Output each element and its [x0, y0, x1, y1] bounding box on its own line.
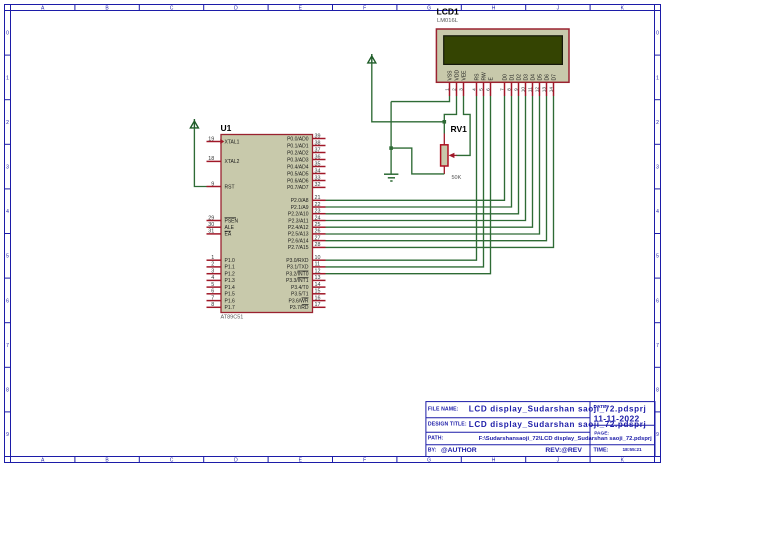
svg-text:P0.0/AD0: P0.0/AD0	[287, 136, 309, 142]
svg-text:EA: EA	[225, 232, 232, 238]
svg-text:12: 12	[315, 269, 321, 275]
svg-text:P2.0/A8: P2.0/A8	[291, 198, 309, 204]
junction ground node	[389, 146, 393, 150]
svg-text:LM016L: LM016L	[437, 18, 459, 24]
svg-text:C: C	[170, 458, 174, 464]
svg-text:24: 24	[315, 215, 321, 221]
svg-text:13: 13	[542, 87, 548, 93]
wire U1 P2.5 to LCD D5	[326, 96, 540, 234]
svg-text:25: 25	[315, 222, 321, 228]
svg-text:1: 1	[656, 75, 659, 81]
svg-text:14: 14	[549, 87, 555, 93]
svg-text:P1.6: P1.6	[225, 298, 236, 304]
chip U1 AT89C51 body	[221, 135, 313, 313]
svg-text:5: 5	[211, 282, 214, 288]
svg-text:11: 11	[315, 262, 321, 268]
svg-text:2: 2	[211, 262, 214, 268]
svg-text:7: 7	[211, 295, 214, 301]
svg-text:27: 27	[315, 235, 321, 241]
wire ground net vertical	[390, 102, 392, 175]
svg-text:P2.5/A13: P2.5/A13	[288, 232, 309, 238]
svg-text:DESIGN TITLE:: DESIGN TITLE:	[428, 421, 467, 427]
svg-text:23: 23	[315, 209, 321, 215]
svg-text:P2.1/A9: P2.1/A9	[291, 205, 309, 211]
LCD screen	[444, 36, 563, 65]
svg-text:TIME:: TIME:	[594, 447, 609, 453]
svg-text:9: 9	[514, 88, 520, 91]
svg-text:10: 10	[315, 255, 321, 261]
U1 pin numbers	[208, 133, 320, 308]
potentiometer RV1 body	[441, 145, 448, 166]
svg-text:PAGE:: PAGE:	[594, 430, 609, 436]
svg-text:VSS: VSS	[448, 70, 454, 81]
sheet border frame	[5, 5, 661, 463]
svg-text:G: G	[427, 5, 431, 11]
svg-text:8: 8	[507, 88, 513, 91]
svg-text:BY:: BY:	[428, 447, 437, 453]
U1 left pin stubs	[207, 142, 222, 308]
svg-text:U1: U1	[221, 123, 232, 133]
wire LCD VSS to ground net	[391, 96, 449, 102]
wire U1 P2.2 to LCD D2	[326, 96, 519, 214]
wire U1 P3.1 to LCD RW	[326, 96, 484, 267]
svg-text:3: 3	[459, 88, 465, 91]
svg-text:H: H	[492, 5, 496, 11]
wire ground branch to RV1 bottom	[391, 148, 444, 174]
svg-text:P0.5/AD5: P0.5/AD5	[287, 171, 309, 177]
svg-text:REV:@REV: REV:@REV	[545, 447, 582, 454]
svg-text:RV1: RV1	[451, 124, 468, 134]
svg-text:39: 39	[315, 133, 321, 139]
svg-text:P3.7/RD: P3.7/RD	[290, 305, 309, 311]
RV1 top pin	[443, 134, 445, 145]
wire U1 P3.0 to LCD RS	[326, 96, 477, 260]
svg-text:P2.7/A15: P2.7/A15	[288, 245, 309, 251]
svg-text:7: 7	[500, 88, 506, 91]
svg-text:D2: D2	[517, 74, 523, 81]
svg-text:5: 5	[6, 254, 9, 260]
svg-text:P1.4: P1.4	[225, 285, 236, 291]
svg-text:32: 32	[315, 182, 321, 188]
svg-text:11-11-2022: 11-11-2022	[594, 414, 640, 424]
wire U1 P2.6 to LCD D6	[326, 96, 547, 241]
svg-text:P3.1/TXD: P3.1/TXD	[287, 265, 309, 271]
title block	[426, 402, 655, 457]
svg-text:G: G	[427, 458, 431, 464]
svg-text:6: 6	[486, 88, 492, 91]
svg-text:9: 9	[211, 181, 214, 187]
U1 pin names	[225, 136, 309, 311]
wire U1 P2.7 to LCD D7	[326, 96, 554, 247]
title block text	[428, 404, 652, 454]
svg-text:P3.3/INT1: P3.3/INT1	[286, 278, 309, 284]
svg-text:10: 10	[521, 87, 527, 93]
svg-text:PSEN: PSEN	[225, 218, 239, 224]
svg-text:P2.6/A14: P2.6/A14	[288, 238, 309, 244]
svg-text:4: 4	[211, 275, 214, 281]
RV1 bottom pin	[443, 166, 445, 174]
svg-text:13: 13	[315, 275, 321, 281]
svg-text:LCD1: LCD1	[437, 7, 459, 17]
svg-text:4: 4	[6, 209, 9, 215]
wire power to U1 RST	[194, 128, 206, 187]
svg-text:RS: RS	[475, 73, 481, 81]
wire U1 P3.2 to LCD E	[326, 96, 491, 274]
svg-text:AT89C51: AT89C51	[221, 315, 244, 321]
svg-text:5: 5	[656, 254, 659, 260]
LCD pin names	[448, 70, 558, 81]
svg-text:P1.5: P1.5	[225, 292, 236, 298]
U1 pin name overlines	[225, 218, 309, 305]
svg-text:FILE NAME:: FILE NAME:	[428, 407, 459, 413]
svg-text:33: 33	[315, 175, 321, 181]
svg-text:19: 19	[208, 136, 214, 142]
svg-text:RW: RW	[482, 72, 488, 81]
svg-text:D5: D5	[538, 74, 544, 81]
svg-text:P1.0: P1.0	[225, 258, 236, 264]
wire U1 P2.4 to LCD D4	[326, 96, 533, 227]
wire LCD VEE to RV1 wiper	[457, 96, 471, 155]
svg-text:15: 15	[315, 289, 321, 295]
junction RV1 top node	[443, 120, 447, 124]
svg-text:0: 0	[6, 31, 9, 37]
svg-text:@AUTHOR: @AUTHOR	[441, 447, 477, 454]
svg-text:14: 14	[315, 282, 321, 288]
svg-text:28: 28	[315, 242, 321, 248]
svg-text:8: 8	[6, 388, 9, 394]
svg-text:36: 36	[315, 154, 321, 160]
svg-text:VEE: VEE	[462, 70, 468, 81]
svg-text:16: 16	[315, 295, 321, 301]
svg-text:P2.3/A11: P2.3/A11	[288, 218, 308, 224]
svg-text:50K: 50K	[452, 175, 462, 181]
svg-text:0: 0	[656, 31, 659, 37]
svg-text:P0.1/AD1: P0.1/AD1	[287, 143, 309, 149]
svg-text:F:\Sudarshansaoji_72\LCD displ: F:\Sudarshansaoji_72\LCD display_Sudarsh…	[479, 436, 653, 442]
svg-text:7: 7	[6, 343, 9, 349]
svg-text:D4: D4	[531, 74, 537, 81]
svg-text:P3.5/T1: P3.5/T1	[291, 292, 309, 298]
svg-text:29: 29	[208, 215, 214, 221]
svg-text:P0.2/AD2: P0.2/AD2	[287, 150, 309, 156]
svg-text:RST: RST	[225, 184, 235, 190]
svg-text:2: 2	[656, 120, 659, 126]
wire U1 P2.0 to LCD D0	[326, 96, 505, 200]
ground symbol	[384, 174, 398, 181]
power arrow symbol near U1	[190, 119, 198, 129]
svg-text:6: 6	[6, 298, 9, 304]
svg-text:3: 3	[211, 269, 214, 275]
svg-text:P3.2/INT0: P3.2/INT0	[286, 272, 309, 278]
svg-text:38: 38	[315, 140, 321, 146]
svg-text:D0: D0	[503, 74, 509, 81]
svg-text:D3: D3	[524, 74, 530, 81]
svg-text:8: 8	[656, 388, 659, 394]
power arrow symbol near RV1	[368, 54, 376, 64]
svg-text:18:55:21: 18:55:21	[623, 447, 643, 453]
svg-text:P0.6/AD6: P0.6/AD6	[287, 178, 309, 184]
RV1 wiper arrow	[449, 153, 457, 158]
svg-text:P0.4/AD4: P0.4/AD4	[287, 164, 309, 170]
svg-text:P3.4/T0: P3.4/T0	[291, 285, 309, 291]
svg-text:17: 17	[315, 302, 321, 308]
svg-text:P0.7/AD7: P0.7/AD7	[287, 185, 309, 191]
svg-text:37: 37	[315, 147, 321, 153]
wire power rail to RV1 top	[372, 63, 445, 122]
svg-text:3: 3	[6, 165, 9, 171]
svg-text:9: 9	[6, 432, 9, 438]
svg-text:P1.7: P1.7	[225, 305, 236, 311]
svg-text:D6: D6	[545, 74, 551, 81]
svg-text:18: 18	[208, 156, 214, 162]
svg-text:30: 30	[208, 222, 214, 228]
U1 XTAL1 clock arrow	[220, 139, 224, 144]
svg-text:1: 1	[211, 255, 214, 261]
svg-text:P0.3/AD3: P0.3/AD3	[287, 157, 309, 163]
svg-text:3: 3	[656, 165, 659, 171]
svg-text:4: 4	[656, 209, 659, 215]
svg-text:XTAL1: XTAL1	[225, 139, 240, 145]
svg-text:2: 2	[452, 88, 458, 91]
svg-text:4: 4	[472, 88, 478, 91]
svg-text:6: 6	[211, 289, 214, 295]
svg-text:LCD display_Sudarshan saoji_72: LCD display_Sudarshan saoji_72.pdsprj	[469, 404, 647, 413]
svg-text:D: D	[234, 458, 238, 464]
svg-text:8: 8	[211, 302, 214, 308]
svg-text:P3.0/RXD: P3.0/RXD	[286, 258, 309, 264]
svg-text:PATH:: PATH:	[428, 436, 444, 442]
svg-text:21: 21	[315, 195, 321, 201]
svg-text:H: H	[492, 458, 496, 464]
svg-text:P1.3: P1.3	[225, 278, 236, 284]
LCD LM016L body	[436, 29, 569, 82]
wire U1 P2.1 to LCD D1	[326, 96, 512, 207]
svg-text:P2.2/A10: P2.2/A10	[288, 212, 309, 218]
svg-text:ALE: ALE	[225, 225, 235, 231]
wire U1 P2.3 to LCD D3	[326, 96, 526, 221]
svg-text:XTAL2: XTAL2	[225, 159, 240, 165]
frame grid labels	[6, 5, 659, 463]
svg-text:F: F	[363, 5, 366, 11]
svg-text:VDD: VDD	[455, 70, 461, 81]
svg-text:35: 35	[315, 161, 321, 167]
svg-text:P1.1: P1.1	[225, 265, 236, 271]
svg-text:9: 9	[656, 432, 659, 438]
svg-text:P1.2: P1.2	[225, 272, 236, 278]
svg-text:31: 31	[208, 229, 214, 235]
svg-text:P3.6/WR: P3.6/WR	[288, 298, 308, 304]
svg-text:12: 12	[535, 87, 541, 93]
svg-text:11: 11	[528, 87, 534, 92]
svg-text:1: 1	[445, 88, 451, 91]
svg-text:5: 5	[479, 88, 485, 91]
svg-text:26: 26	[315, 229, 321, 235]
U1 right pin stubs	[313, 139, 326, 308]
svg-text:2: 2	[6, 120, 9, 126]
svg-text:1: 1	[6, 75, 9, 81]
svg-text:6: 6	[656, 298, 659, 304]
svg-text:7: 7	[656, 343, 659, 349]
svg-text:D7: D7	[552, 74, 558, 81]
svg-text:D: D	[234, 5, 238, 11]
svg-text:34: 34	[315, 168, 321, 174]
svg-text:F: F	[363, 458, 366, 464]
LCD pin stubs	[450, 82, 554, 96]
svg-text:DATE:: DATE:	[594, 404, 609, 410]
wire LCD VDD to RV1 top	[444, 96, 456, 134]
svg-text:C: C	[170, 5, 174, 11]
svg-text:P2.4/A12: P2.4/A12	[288, 225, 309, 231]
svg-text:22: 22	[315, 202, 321, 208]
LCD pin numbers	[445, 87, 555, 93]
svg-text:D1: D1	[510, 74, 516, 81]
